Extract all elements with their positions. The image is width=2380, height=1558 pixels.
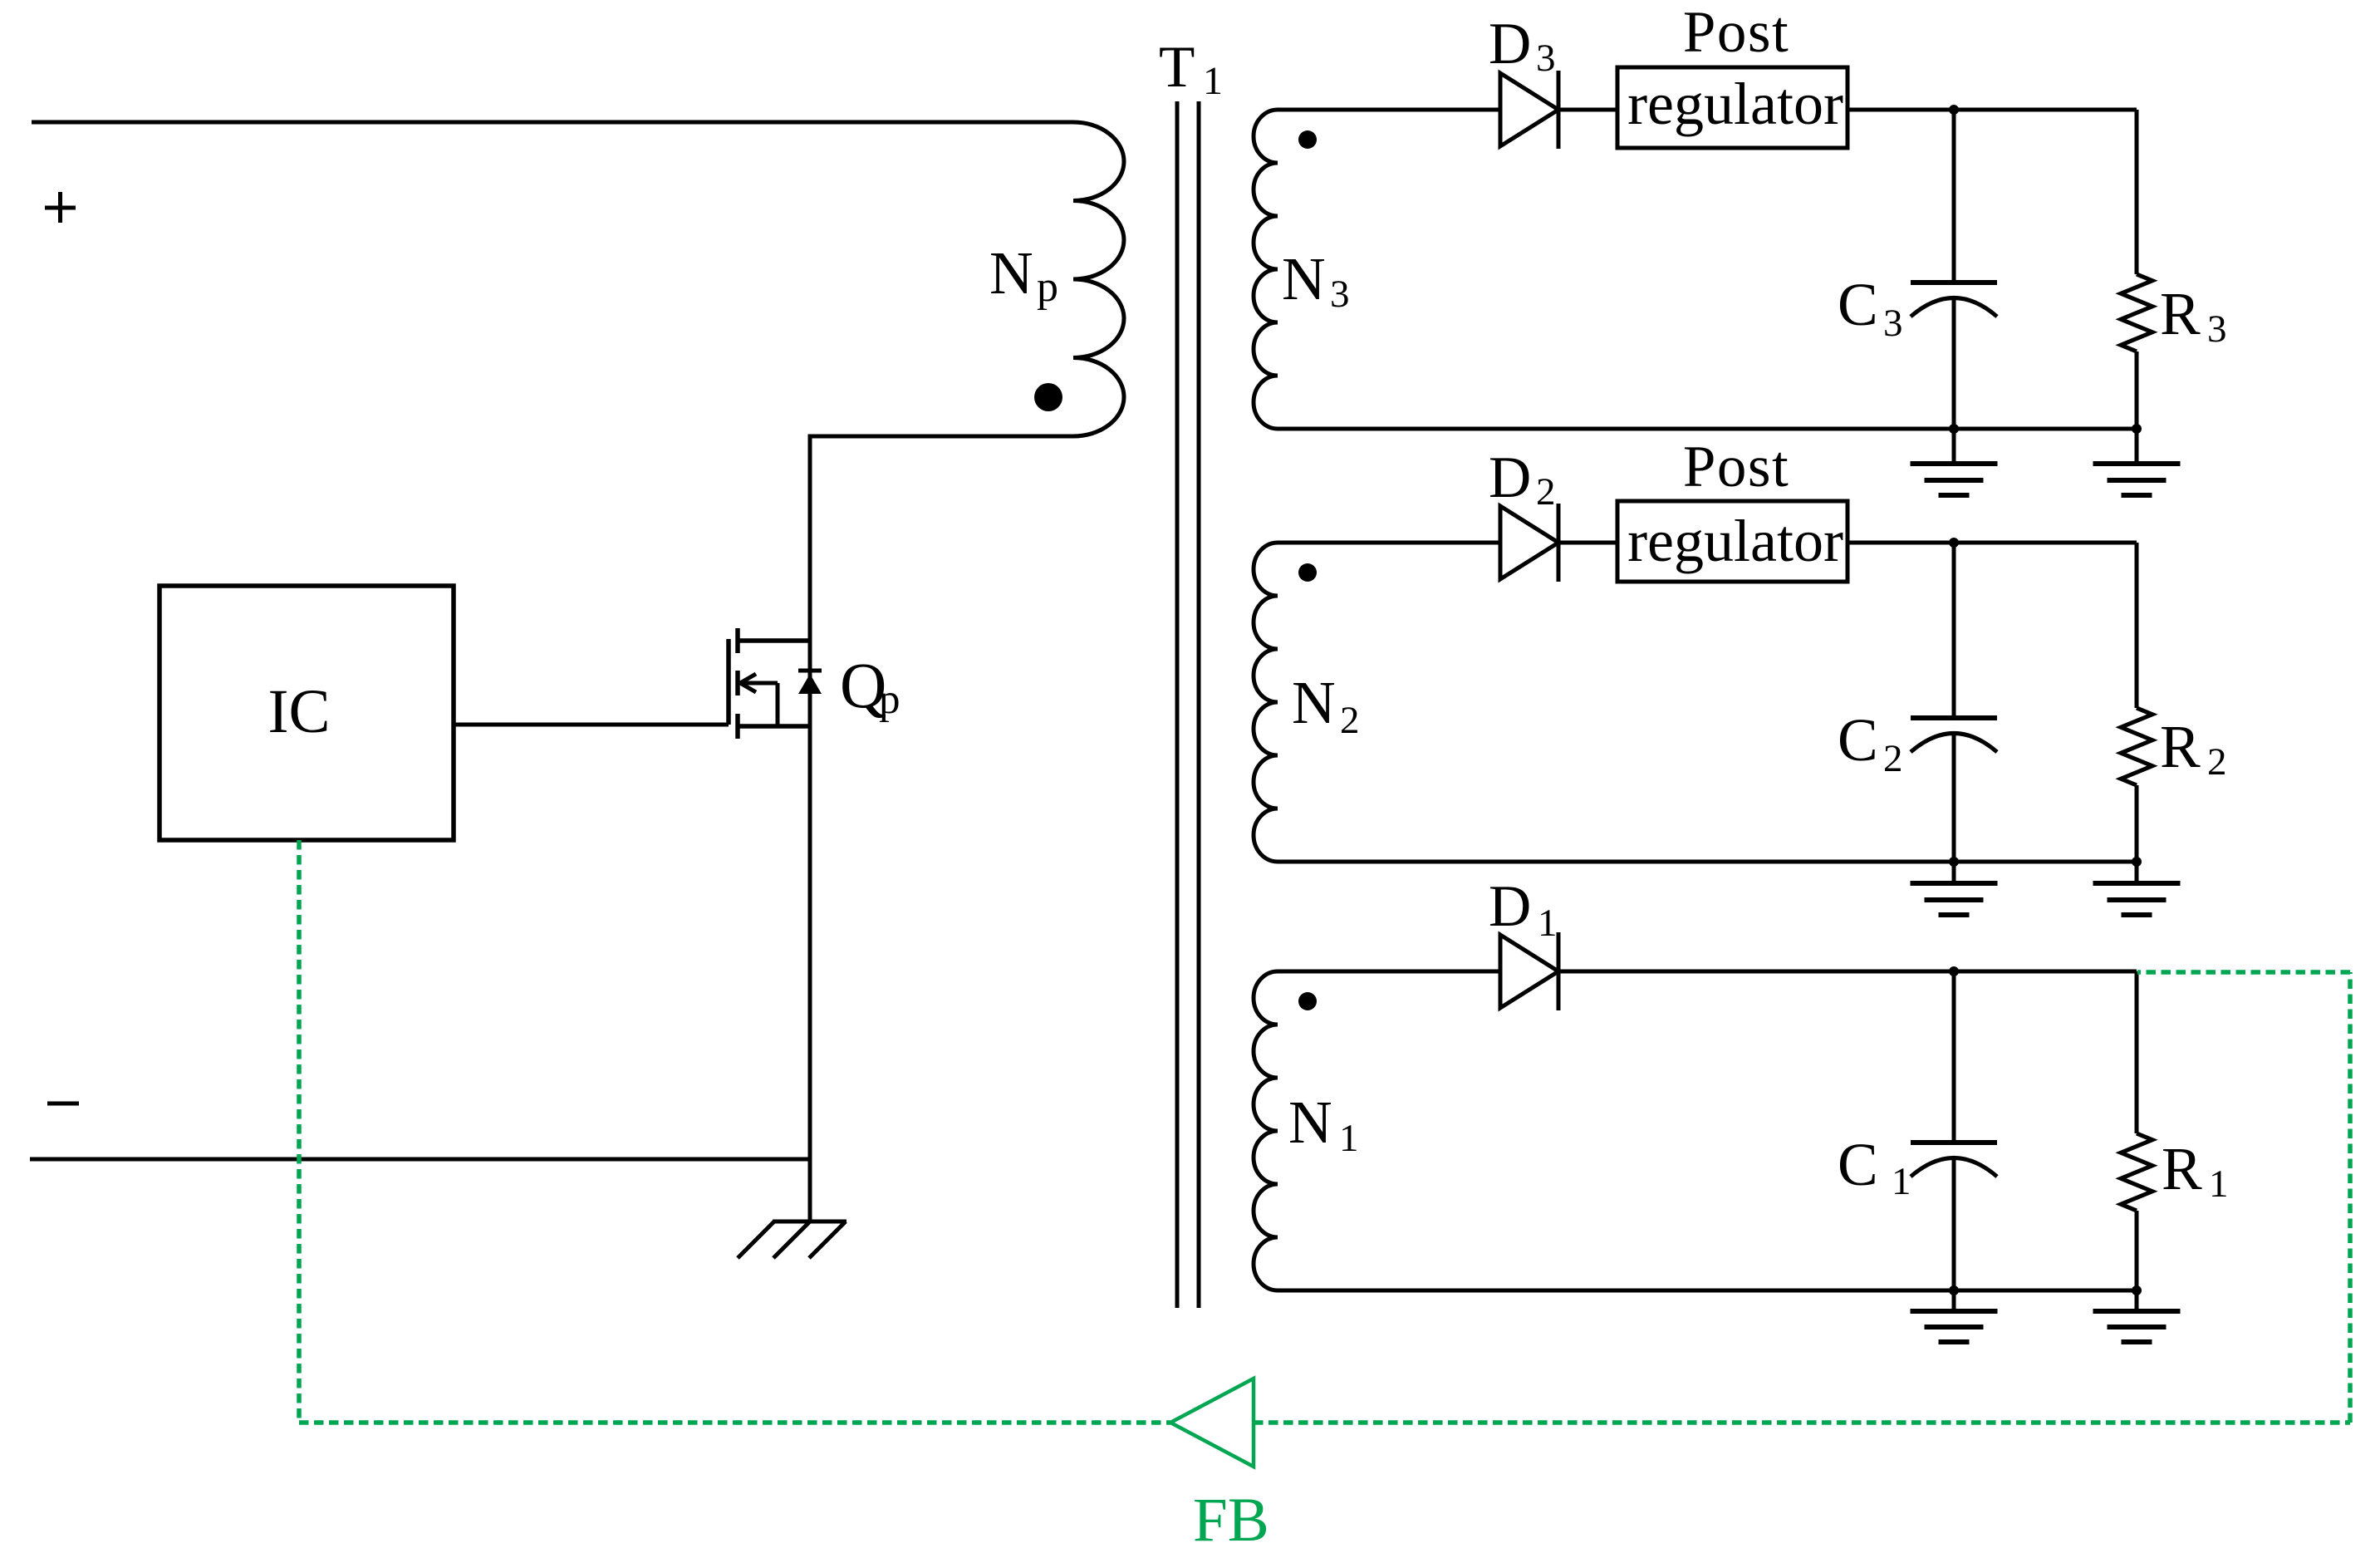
wire N1 top to D1 <box>1278 970 1500 974</box>
wire FB dashed horizontal to triangle <box>299 1420 1170 1425</box>
svg-text:R: R <box>2160 280 2201 347</box>
diode D1 <box>1500 932 1558 1010</box>
label plus <box>45 192 76 223</box>
IC U1 box <box>159 586 454 840</box>
transistor Q1 gate bar <box>726 639 731 725</box>
node junction dot N3 top <box>1949 105 1959 115</box>
wire C2 bottom lead <box>1952 735 1956 862</box>
node junction dot R2 bottom <box>2132 857 2142 867</box>
transformer T1 core <box>1177 101 1199 1308</box>
wire primary bottom to MOSFET drain <box>810 436 1073 1221</box>
svg-text:3: 3 <box>2207 307 2227 351</box>
wire C3 bottom lead <box>1952 299 1956 429</box>
wire R1 top lead <box>2135 971 2139 1133</box>
wire N3 bottom return <box>1278 427 2137 431</box>
svg-text:C: C <box>1838 706 1878 774</box>
wire post regulator to R3 corner <box>1848 108 2137 112</box>
svg-text:T: T <box>1159 35 1195 100</box>
wire R3 bottom lead <box>2135 351 2139 429</box>
label R3 <box>2160 280 2227 351</box>
svg-text:N: N <box>989 239 1033 307</box>
capacitor C1 <box>1911 1143 1997 1177</box>
label Np <box>989 239 1058 311</box>
label C3 <box>1838 271 1903 345</box>
post regulator box N2 <box>1617 501 1848 582</box>
svg-text:R: R <box>2162 1135 2202 1202</box>
wire R2 bottom lead <box>2135 785 2139 862</box>
capacitor C2 <box>1911 718 1997 752</box>
transformer T1 secondary winding N1 <box>1254 971 1278 1290</box>
ground below C1 <box>1911 1290 1998 1342</box>
svg-text:1: 1 <box>1203 59 1223 103</box>
label Qp <box>840 649 900 723</box>
wire D3 to post regulator <box>1558 108 1617 112</box>
svg-text:3: 3 <box>1536 37 1556 80</box>
svg-text:1: 1 <box>2209 1162 2229 1206</box>
label C1 <box>1838 1131 1911 1203</box>
resistor R2 <box>2121 708 2152 785</box>
wire R2 top lead <box>2135 543 2139 708</box>
wire FB dashed horizontal from triangle to right <box>1254 1420 2350 1425</box>
node junction dot R1 bottom <box>2132 1285 2142 1295</box>
svg-text:1: 1 <box>1339 1117 1359 1160</box>
node N2 phase dot <box>1298 563 1317 582</box>
resistor R1 <box>2121 1133 2152 1211</box>
ground chassis below Qp <box>738 1221 846 1258</box>
resistor R3 <box>2121 274 2152 351</box>
capacitor C3 <box>1911 283 1997 317</box>
node primary phase dot <box>1034 383 1062 411</box>
node junction dot N2 top <box>1949 538 1959 548</box>
svg-text:D: D <box>1489 445 1531 510</box>
wire D2 to post regulator <box>1558 541 1617 545</box>
diode D2 <box>1500 504 1558 582</box>
wire bottom negative rail <box>30 1157 810 1162</box>
svg-text:regulator: regulator <box>1627 508 1843 574</box>
label R2 <box>2160 713 2227 784</box>
node N1 phase dot <box>1298 992 1317 1010</box>
label N1 <box>1288 1089 1359 1160</box>
transformer T1 secondary winding N3 <box>1254 110 1278 429</box>
diode D3 <box>1500 71 1558 149</box>
wire post regulator to R2 corner <box>1848 541 2137 545</box>
svg-text:2: 2 <box>1536 470 1556 514</box>
transformer T1 secondary winding N2 <box>1254 543 1278 862</box>
svg-text:1: 1 <box>1892 1160 1911 1203</box>
svg-text:2: 2 <box>1340 699 1360 742</box>
wire D1 to R1 corner <box>1558 970 2137 974</box>
svg-text:C: C <box>1838 271 1878 338</box>
ground below R2 <box>2093 862 2181 915</box>
wire N3 top to D3 <box>1278 108 1500 112</box>
transformer T1 primary winding Np <box>1073 122 1124 436</box>
transistor Q1 drain stub <box>738 638 810 643</box>
node junction dot N1 top <box>1949 966 1959 976</box>
svg-text:2: 2 <box>2207 740 2227 784</box>
label N2 <box>1292 669 1360 742</box>
svg-text:2: 2 <box>1883 737 1903 780</box>
wire R1 bottom lead <box>2135 1211 2139 1290</box>
svg-text:FB: FB <box>1193 1486 1269 1555</box>
label D3 <box>1489 12 1556 80</box>
label T1 <box>1159 35 1223 103</box>
wire IC to gate <box>454 723 729 727</box>
wire R3 top lead <box>2135 110 2139 274</box>
ground below C2 <box>1911 862 1998 915</box>
svg-text:N: N <box>1282 245 1326 312</box>
label R1 <box>2162 1135 2229 1206</box>
node junction dot R3 bottom <box>2132 424 2142 434</box>
svg-text:IC: IC <box>268 677 331 746</box>
label minus <box>47 1102 79 1106</box>
op-amp FB buffer triangle <box>1170 1379 1254 1467</box>
ground below R3 <box>2093 429 2181 495</box>
wire N2 bottom return <box>1278 860 2137 864</box>
node junction dot C3 bottom <box>1949 424 1959 434</box>
label C2 <box>1838 706 1903 780</box>
node junction dot C2 bottom <box>1949 857 1959 867</box>
label D2 <box>1489 445 1556 514</box>
svg-text:R: R <box>2160 713 2201 780</box>
wire C1 top lead <box>1952 971 1956 1143</box>
svg-text:D: D <box>1489 12 1531 76</box>
svg-text:3: 3 <box>1330 273 1350 316</box>
label D1 <box>1489 874 1558 945</box>
wire top positive rail <box>32 120 1073 125</box>
wire C1 bottom lead <box>1952 1159 1956 1290</box>
svg-text:1: 1 <box>1538 902 1558 945</box>
svg-text:3: 3 <box>1883 302 1903 345</box>
node junction dot C1 bottom <box>1949 1285 1959 1295</box>
svg-text:Post: Post <box>1683 0 1789 65</box>
wire C2 top lead <box>1952 543 1956 718</box>
svg-text:N: N <box>1292 669 1336 736</box>
svg-text:regulator: regulator <box>1627 71 1843 137</box>
svg-text:p: p <box>879 676 900 723</box>
wire FB dashed horizontal to output node <box>2137 970 2350 975</box>
wire FB dashed vertical from IC <box>297 840 302 1423</box>
post regulator box N3 <box>1617 67 1848 148</box>
node N3 phase dot <box>1298 130 1317 149</box>
ground below C3 <box>1911 429 1998 495</box>
transistor Q1 source stub <box>738 724 810 729</box>
svg-text:N: N <box>1288 1089 1332 1156</box>
label N3 <box>1282 245 1350 316</box>
ground below R1 <box>2093 1290 2181 1342</box>
svg-text:Post: Post <box>1683 435 1789 499</box>
svg-text:D: D <box>1489 874 1531 939</box>
svg-text:C: C <box>1838 1131 1878 1198</box>
wire N1 bottom return <box>1278 1289 2137 1293</box>
diode Q1 body diode <box>798 671 822 694</box>
transistor Q1 body arrow <box>740 674 778 726</box>
transistor Q1 channel segments <box>735 628 740 739</box>
wire C3 top lead <box>1952 110 1956 283</box>
wire N2 top to D2 <box>1278 541 1500 545</box>
svg-text:p: p <box>1037 263 1058 311</box>
wire FB dashed vertical right <box>2348 972 2353 1423</box>
